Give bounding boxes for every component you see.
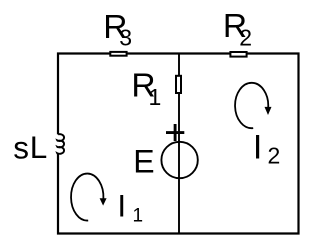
- svg-text:2: 2: [239, 24, 252, 50]
- mesh current I1 loop arrow: [71, 174, 103, 221]
- svg-text:2: 2: [268, 143, 281, 169]
- inductor sL coil: [57, 134, 64, 154]
- svg-text:I: I: [117, 188, 126, 224]
- resistor R2: [230, 52, 246, 57]
- resistor R1: [176, 76, 181, 93]
- svg-text:s: s: [13, 130, 29, 166]
- svg-text:E: E: [133, 143, 154, 179]
- svg-text:1: 1: [133, 205, 144, 226]
- voltage source E circle: [161, 142, 197, 178]
- svg-text:3: 3: [119, 25, 132, 51]
- mesh current I2 loop arrow: [235, 83, 268, 128]
- svg-text:L: L: [30, 129, 48, 165]
- wire: outer loop (left side interrupted for inductor): [58, 54, 299, 234]
- svg-text:I: I: [253, 128, 262, 166]
- svg-text:1: 1: [149, 84, 162, 110]
- wire: middle branch vertical: [178, 54, 180, 234]
- plus sign polarity mark: [166, 131, 184, 134]
- resistor R3: [110, 52, 126, 56]
